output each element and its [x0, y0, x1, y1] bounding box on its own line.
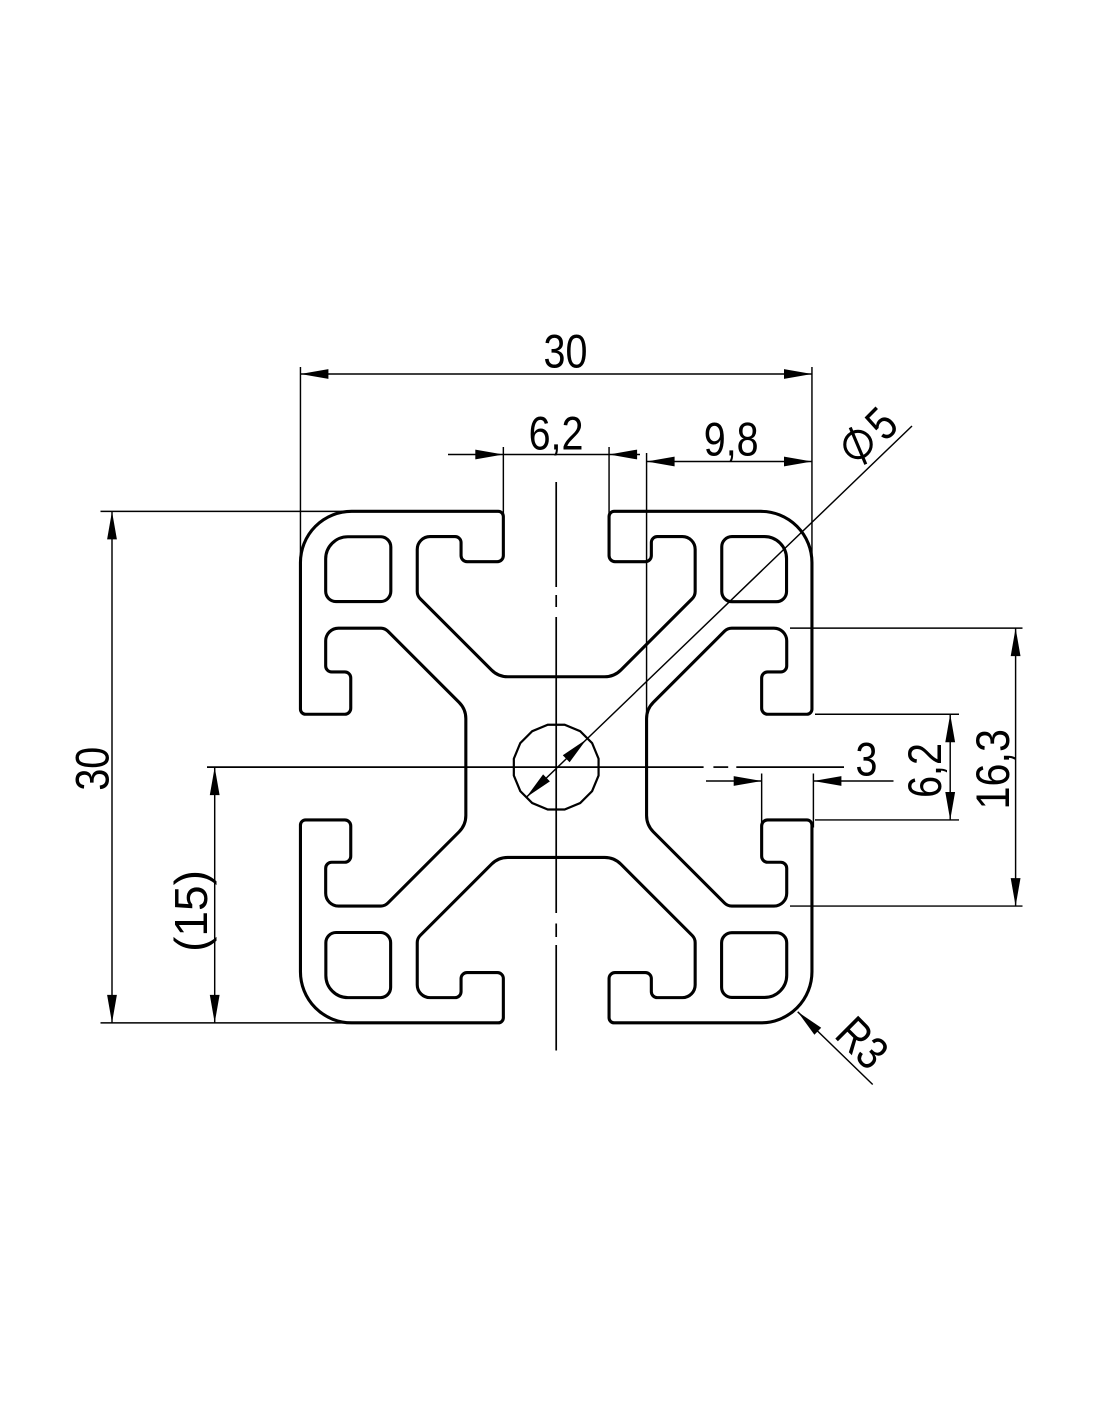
svg-text:9,8: 9,8	[704, 414, 759, 466]
svg-text:3: 3	[856, 734, 878, 786]
svg-text:5: 5	[856, 398, 908, 450]
svg-text:(15): (15)	[165, 870, 217, 952]
svg-text:16,3: 16,3	[967, 729, 1019, 809]
svg-text:6,2: 6,2	[529, 408, 584, 460]
svg-text:R3: R3	[825, 1007, 897, 1079]
svg-text:30: 30	[67, 747, 119, 791]
svg-text:30: 30	[544, 326, 588, 378]
svg-text:6,2: 6,2	[900, 743, 952, 798]
